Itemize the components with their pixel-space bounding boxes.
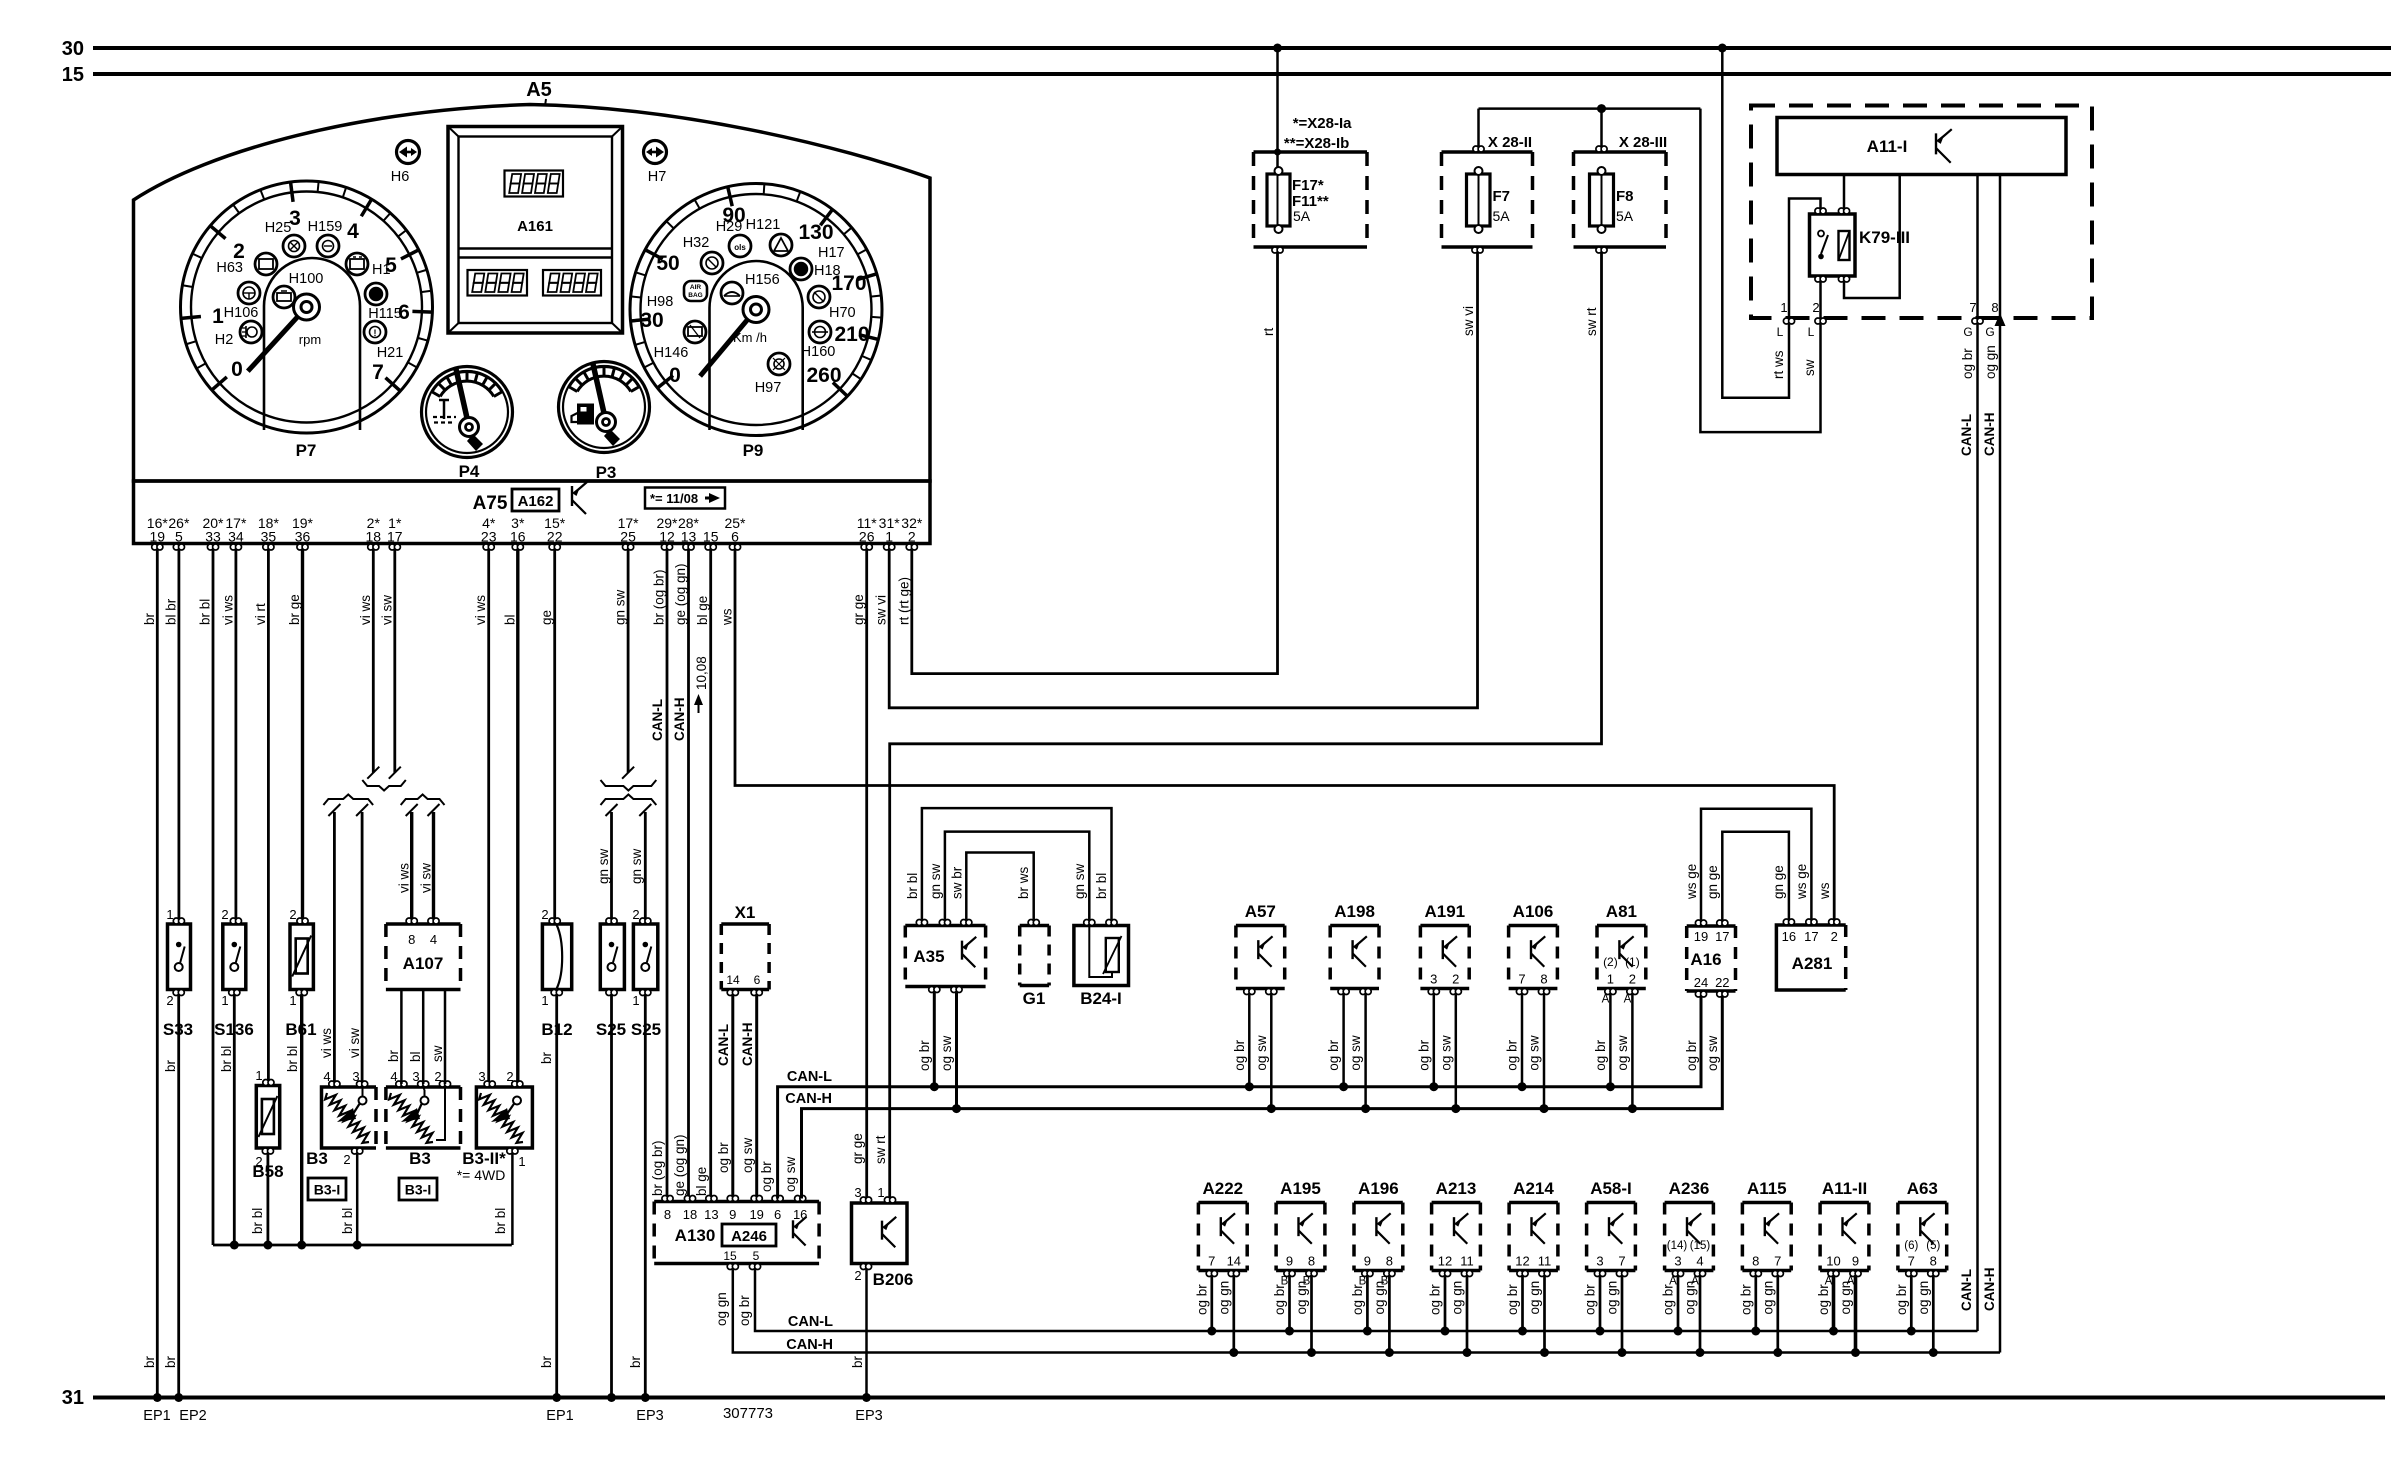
svg-text:gn sw: gn sw xyxy=(613,589,628,625)
wire A11-II og br to CAN-L xyxy=(1832,1277,1836,1332)
svg-text:*= 4WD: *= 4WD xyxy=(457,1167,506,1183)
svg-text:og br: og br xyxy=(1738,1284,1753,1315)
svg-text:og br: og br xyxy=(1960,348,1975,379)
svg-text:br: br xyxy=(850,1355,865,1368)
wire A106 og br to CAN-L xyxy=(1521,995,1524,1087)
svg-text:5A: 5A xyxy=(1616,208,1634,224)
wire gn sw to S25 left xyxy=(610,812,613,921)
wire K79 coil bottom loop to A11-I xyxy=(1844,175,1900,299)
svg-text:H25: H25 xyxy=(265,220,292,236)
wire A81 og sw to CAN-H xyxy=(1631,995,1634,1109)
svg-text:og br: og br xyxy=(737,1295,752,1326)
svg-text:B3: B3 xyxy=(306,1149,328,1168)
telltale H2 xyxy=(240,321,262,343)
telltale H1 xyxy=(346,253,368,275)
control unit A222 xyxy=(1198,1201,1247,1205)
svg-text:L: L xyxy=(1777,325,1784,339)
svg-text:9: 9 xyxy=(1286,1254,1293,1269)
svg-text:og sw: og sw xyxy=(740,1137,755,1173)
control unit A191 xyxy=(1420,924,1469,928)
sensor B58 xyxy=(256,1086,279,1149)
svg-text:og br: og br xyxy=(1350,1284,1365,1315)
svg-text:A214: A214 xyxy=(1513,1179,1554,1198)
A11-I inner module xyxy=(1777,118,2066,175)
svg-text:H7: H7 xyxy=(648,169,667,185)
telltale H106 xyxy=(238,282,260,304)
telltale H115 xyxy=(365,283,387,305)
junction on bus 30 feeding relay supply xyxy=(1718,44,1727,53)
svg-text:10: 10 xyxy=(1826,1254,1840,1269)
wire B12 to bus31 EP1 xyxy=(555,993,558,1398)
svg-text:og gn: og gn xyxy=(1983,345,1998,379)
svg-text:rt (rt ge): rt (rt ge) xyxy=(896,577,911,625)
svg-text:A107: A107 xyxy=(403,954,444,973)
control unit A106 xyxy=(1509,924,1558,928)
photocell B206 xyxy=(852,1203,908,1264)
wire pin17 vi sw to cable break xyxy=(393,550,396,773)
fuse F17/F11 5A xyxy=(1267,174,1290,226)
wire pin36 br ge to B61 xyxy=(301,550,304,921)
svg-text:5: 5 xyxy=(753,1249,760,1263)
wire A222 og gn to CAN-H xyxy=(1232,1277,1235,1353)
svg-text:A162: A162 xyxy=(518,493,554,510)
wire A214 og gn to CAN-H xyxy=(1543,1277,1546,1353)
svg-text:A196: A196 xyxy=(1358,1179,1399,1198)
svg-text:7: 7 xyxy=(1908,1254,1915,1269)
control unit A11-II xyxy=(1820,1201,1869,1205)
svg-text:1: 1 xyxy=(1607,972,1614,987)
gearbox sender B3-II xyxy=(476,1087,532,1148)
svg-text:br: br xyxy=(628,1355,643,1368)
wires A11-I pins 7 8 internal xyxy=(1976,175,1979,319)
svg-text:!: ! xyxy=(374,328,377,338)
svg-text:11: 11 xyxy=(1538,1254,1552,1269)
svg-text:19: 19 xyxy=(749,1207,763,1222)
telltale H97 xyxy=(768,353,790,375)
svg-text:1: 1 xyxy=(518,1154,525,1169)
svg-text:H6: H6 xyxy=(391,169,410,185)
svg-text:G: G xyxy=(1963,325,1972,339)
svg-text:sw: sw xyxy=(430,1045,445,1062)
svg-text:7: 7 xyxy=(1518,972,1525,987)
svg-text:og sw: og sw xyxy=(1705,1035,1720,1071)
combination control unit A130 xyxy=(654,1200,819,1204)
svg-text:19: 19 xyxy=(1694,929,1708,944)
wire og gn CAN-H from pin8 xyxy=(1999,324,2002,1353)
svg-text:14: 14 xyxy=(1227,1254,1241,1269)
svg-text:8: 8 xyxy=(408,932,415,947)
wire A11-I to K79 coil top xyxy=(1843,175,1846,209)
wire gn sw to S25 right xyxy=(644,812,647,921)
svg-text:ws: ws xyxy=(1817,882,1832,900)
wire A11-II og gn to CAN-H xyxy=(1854,1277,1858,1353)
svg-text:H63: H63 xyxy=(216,260,243,276)
speedometer P9 xyxy=(630,184,882,436)
svg-text:A281: A281 xyxy=(1792,954,1833,973)
svg-text:1: 1 xyxy=(212,305,224,328)
svg-text:18: 18 xyxy=(683,1207,697,1222)
svg-text:sw rt: sw rt xyxy=(873,1135,888,1164)
svg-text:ws ge: ws ge xyxy=(1684,864,1699,900)
wire A58-I og br to CAN-L xyxy=(1599,1277,1602,1332)
bus 31 xyxy=(93,1396,2385,1400)
svg-text:H17: H17 xyxy=(818,245,845,261)
svg-text:ge: ge xyxy=(539,610,554,625)
wire A63 og br to CAN-L xyxy=(1910,1277,1913,1332)
brake fluid switch B12 xyxy=(542,924,571,990)
svg-text:BAG: BAG xyxy=(688,292,702,299)
svg-text:br: br xyxy=(142,612,157,625)
svg-text:15: 15 xyxy=(62,64,84,86)
svg-text:EP1: EP1 xyxy=(546,1408,573,1424)
svg-text:8: 8 xyxy=(1308,1254,1315,1269)
svg-text:br ge: br ge xyxy=(287,594,302,625)
svg-text:CAN-H: CAN-H xyxy=(1982,1268,1997,1312)
svg-text:bl br: bl br xyxy=(163,598,178,625)
svg-text:H160: H160 xyxy=(801,344,836,360)
svg-text:8: 8 xyxy=(1930,1254,1937,1269)
wire S25 left to bus31 xyxy=(610,993,613,1398)
svg-text:1: 1 xyxy=(289,993,296,1008)
svg-text:gr ge: gr ge xyxy=(850,1133,865,1164)
svg-text:3: 3 xyxy=(854,1185,861,1200)
svg-text:A81: A81 xyxy=(1606,902,1637,921)
wire S33 to bus31 EP2 xyxy=(177,993,180,1398)
svg-text:H2: H2 xyxy=(215,332,234,348)
control unit A81 xyxy=(1597,924,1646,928)
svg-text:2: 2 xyxy=(166,993,173,1008)
svg-text:7: 7 xyxy=(1969,300,1976,315)
telltale H98 airbag xyxy=(684,281,707,301)
svg-text:og br: og br xyxy=(917,1040,932,1071)
wire pin1 sw vi to fuse F7 xyxy=(889,250,1477,708)
svg-text:AIR: AIR xyxy=(690,284,702,291)
svg-text:S25: S25 xyxy=(631,1020,661,1039)
coolant temperature gauge P4 xyxy=(422,367,513,458)
wire pin23 vi ws to B3-II pin3 xyxy=(487,550,490,1084)
svg-text:7: 7 xyxy=(1774,1254,1781,1269)
svg-text:1: 1 xyxy=(541,993,548,1008)
svg-text:H70: H70 xyxy=(829,305,856,321)
svg-text:B58: B58 xyxy=(252,1162,283,1181)
switch S33 xyxy=(168,924,191,990)
svg-text:16: 16 xyxy=(510,529,526,545)
svg-text:A236: A236 xyxy=(1669,1179,1710,1198)
cable brace lower to A107 xyxy=(401,795,445,806)
wire pin2 rt to fuse F17 xyxy=(912,250,1278,674)
telltale H21 xyxy=(364,321,386,343)
svg-text:1: 1 xyxy=(166,907,173,922)
svg-text:H29: H29 xyxy=(716,219,743,235)
svg-text:vi ws: vi ws xyxy=(358,595,373,625)
wire A115 og br to CAN-L xyxy=(1754,1277,1757,1332)
svg-text:gr ge: gr ge xyxy=(851,594,866,625)
svg-text:A11-II: A11-II xyxy=(1822,1179,1867,1198)
svg-text:H18: H18 xyxy=(814,263,841,279)
svg-text:A58-I: A58-I xyxy=(1590,1179,1632,1198)
wire A16 pin19 ws ge to A281 pin17 xyxy=(1701,809,1811,920)
svg-text:A195: A195 xyxy=(1280,1179,1321,1198)
svg-text:A: A xyxy=(1624,994,1632,1006)
wire pin34 vi ws to S136 xyxy=(234,550,237,921)
coolant level sender B3 (second) xyxy=(386,1085,461,1089)
svg-text:H146: H146 xyxy=(654,345,689,361)
svg-text:8: 8 xyxy=(1540,972,1547,987)
svg-text:og br: og br xyxy=(716,1142,731,1173)
svg-text:1: 1 xyxy=(255,1068,262,1083)
svg-text:vi rt: vi rt xyxy=(253,603,268,625)
svg-text:S25: S25 xyxy=(596,1020,626,1039)
svg-text:EP1: EP1 xyxy=(143,1408,170,1424)
svg-text:og gn: og gn xyxy=(1605,1281,1620,1315)
telltale H121 xyxy=(770,234,792,256)
svg-text:12: 12 xyxy=(659,529,675,545)
svg-text:307773: 307773 xyxy=(723,1405,773,1422)
svg-text:7: 7 xyxy=(1208,1254,1215,1269)
svg-text:og br: og br xyxy=(1194,1284,1209,1315)
svg-text:23: 23 xyxy=(481,529,497,545)
svg-text:rpm: rpm xyxy=(299,332,321,347)
svg-text:gn sw: gn sw xyxy=(1072,863,1087,899)
svg-text:31: 31 xyxy=(62,1387,84,1409)
svg-text:og sw: og sw xyxy=(1254,1035,1269,1071)
svg-text:og br: og br xyxy=(1816,1284,1831,1315)
svg-text:(14): (14) xyxy=(1667,1240,1688,1252)
svg-text:G: G xyxy=(1985,325,1994,339)
A107 output wires br bl sw xyxy=(400,990,403,1085)
svg-text:og sw: og sw xyxy=(1438,1035,1453,1071)
svg-text:og gn: og gn xyxy=(1450,1281,1465,1315)
svg-text:A75: A75 xyxy=(473,493,508,514)
svg-text:CAN-H: CAN-H xyxy=(740,1023,755,1067)
svg-text:19: 19 xyxy=(150,529,166,545)
svg-text:CAN-L: CAN-L xyxy=(716,1024,731,1066)
wire og br CAN-L from pin7 xyxy=(1976,324,1979,1331)
svg-text:sw vi: sw vi xyxy=(1461,306,1476,336)
svg-text:*= 11/08: *= 11/08 xyxy=(650,491,698,506)
svg-text:CAN-L: CAN-L xyxy=(650,699,665,741)
svg-text:13: 13 xyxy=(681,529,697,545)
svg-text:gn ge: gn ge xyxy=(1771,865,1786,899)
svg-text:br ws: br ws xyxy=(1016,866,1031,899)
svg-text:7: 7 xyxy=(1618,1254,1625,1269)
svg-text:**=X28-Ib: **=X28-Ib xyxy=(1284,135,1349,152)
svg-text:og br: og br xyxy=(1684,1040,1699,1071)
svg-text:og br: og br xyxy=(1232,1039,1247,1070)
svg-text:1: 1 xyxy=(877,1185,884,1200)
wire A58-I og gn to CAN-H xyxy=(1621,1277,1624,1353)
wire pin22 ge to B12 xyxy=(553,550,556,921)
svg-text:H1: H1 xyxy=(372,262,391,278)
svg-text:gn sw: gn sw xyxy=(928,863,943,899)
svg-text:B3-I: B3-I xyxy=(314,1182,340,1198)
svg-text:1: 1 xyxy=(885,529,893,545)
svg-text:2: 2 xyxy=(541,907,548,922)
CAN-L mid bus xyxy=(778,996,1701,1199)
svg-text:A191: A191 xyxy=(1424,902,1465,921)
fuel level sender B3 xyxy=(322,1087,377,1148)
svg-text:2: 2 xyxy=(289,907,296,922)
svg-text:vi ws: vi ws xyxy=(397,863,412,893)
svg-text:3: 3 xyxy=(1674,1254,1681,1269)
svg-text:br bl: br bl xyxy=(1094,873,1109,899)
svg-text:bl: bl xyxy=(408,1051,423,1062)
svg-text:og br: og br xyxy=(1272,1284,1287,1315)
wire A57 og sw to CAN-H xyxy=(1270,995,1273,1109)
svg-text:B12: B12 xyxy=(541,1020,572,1039)
svg-text:B: B xyxy=(1381,1276,1389,1288)
wire A191 og sw to CAN-H xyxy=(1455,995,1458,1109)
svg-text:A11-I: A11-I xyxy=(1867,137,1908,156)
validity box *= 11/08 xyxy=(645,488,725,509)
relay K79-III xyxy=(1810,214,1856,276)
svg-text:4: 4 xyxy=(430,932,437,947)
wire pin35 vi rt to B58 xyxy=(267,550,270,1082)
control unit A107 xyxy=(386,922,461,926)
wire A236 og gn to CAN-H xyxy=(1699,1277,1702,1353)
switch S25 (left) xyxy=(600,924,624,990)
wire A195 og br to CAN-L xyxy=(1288,1277,1291,1332)
svg-text:og sw: og sw xyxy=(783,1156,798,1192)
svg-text:4: 4 xyxy=(1696,1254,1703,1269)
svg-text:A161: A161 xyxy=(517,218,553,235)
wire S136 to ground bus xyxy=(233,993,236,1246)
svg-text:X1: X1 xyxy=(735,903,756,922)
svg-text:H115: H115 xyxy=(368,306,402,322)
svg-text:P4: P4 xyxy=(459,462,480,481)
svg-text:B: B xyxy=(1281,1276,1289,1288)
wire A35 gn sw loop to B24-I pin gn sw xyxy=(945,832,1089,920)
svg-text:26: 26 xyxy=(859,529,875,545)
svg-text:B3-I: B3-I xyxy=(405,1182,431,1198)
wire K79 pin1 to connector pin1 xyxy=(1789,199,1821,319)
svg-text:*=X28-Ia: *=X28-Ia xyxy=(1293,115,1352,132)
svg-text:P7: P7 xyxy=(296,441,317,460)
CAN-L bottom bus xyxy=(755,1270,1978,1332)
svg-text:br bl: br bl xyxy=(285,1046,300,1072)
telltale H70 xyxy=(808,286,830,308)
CAN-H mid bus xyxy=(802,996,1723,1199)
svg-text:6: 6 xyxy=(731,529,739,545)
telltale H160 xyxy=(809,321,831,343)
wire A35 sw br to G1 br ws xyxy=(966,853,1033,920)
svg-text:(6): (6) xyxy=(1904,1240,1918,1252)
cable brace S25 pair xyxy=(601,780,657,791)
svg-text:2: 2 xyxy=(343,1152,350,1167)
svg-text:rt: rt xyxy=(1261,328,1276,336)
wire A198 og br to CAN-L xyxy=(1342,995,1345,1087)
wire pin12 CAN-L to A130 pin8 xyxy=(666,550,669,1199)
svg-text:og br: og br xyxy=(1894,1284,1909,1315)
svg-text:6: 6 xyxy=(754,973,761,987)
control unit A115 xyxy=(1742,1201,1791,1205)
svg-text:5: 5 xyxy=(175,529,183,545)
sensor B61 xyxy=(290,924,313,990)
wire A195 og gn to CAN-H xyxy=(1310,1277,1313,1353)
svg-text:17: 17 xyxy=(387,529,403,545)
svg-text:35: 35 xyxy=(261,529,277,545)
svg-text:S136: S136 xyxy=(214,1020,254,1039)
svg-text:ws ge: ws ge xyxy=(1794,864,1809,900)
svg-text:11: 11 xyxy=(1460,1254,1474,1269)
svg-text:H156: H156 xyxy=(745,272,780,288)
svg-text:14: 14 xyxy=(726,973,740,987)
control unit A195 xyxy=(1276,1201,1325,1205)
svg-text:24: 24 xyxy=(1694,975,1708,990)
svg-text:CAN-L: CAN-L xyxy=(787,1069,832,1085)
svg-text:br: br xyxy=(163,1355,178,1368)
wire A213 og gn to CAN-H xyxy=(1466,1277,1469,1353)
wire rt ws from bus30 to pin1 xyxy=(1722,48,1789,398)
svg-text:og br: og br xyxy=(1505,1284,1520,1315)
svg-text:br: br xyxy=(163,1059,178,1072)
fuel gauge P3 xyxy=(559,362,650,453)
svg-text:og gn: og gn xyxy=(1916,1281,1931,1315)
wire A35 og br to CAN-L xyxy=(933,993,936,1087)
svg-text:K79-III: K79-III xyxy=(1859,228,1910,247)
svg-text:sw br: sw br xyxy=(950,866,965,899)
wire pin26 gr ge to B206 pin3 xyxy=(865,550,868,1200)
svg-text:(5): (5) xyxy=(1926,1240,1940,1252)
svg-text:5A: 5A xyxy=(1293,208,1311,224)
svg-text:br: br xyxy=(386,1049,401,1062)
svg-text:P3: P3 xyxy=(596,463,617,482)
svg-text:A213: A213 xyxy=(1436,1179,1477,1198)
control unit A16 xyxy=(1687,924,1736,928)
svg-text:ws: ws xyxy=(720,608,735,626)
svg-text:bl ge: bl ge xyxy=(695,596,710,625)
wire A63 og gn to CAN-H xyxy=(1932,1277,1935,1353)
svg-text:A: A xyxy=(1825,1276,1833,1288)
wire vi sw to B3 pin3 xyxy=(361,812,364,1084)
svg-text:16: 16 xyxy=(793,1207,807,1222)
svg-text:2: 2 xyxy=(1812,300,1819,315)
wire pin15 bl ge to A130 pin13 xyxy=(709,550,712,1199)
svg-text:2: 2 xyxy=(221,907,228,922)
svg-text:H97: H97 xyxy=(755,380,782,396)
wire pin25 gn sw to cable break xyxy=(627,550,630,773)
wire A222 og br to CAN-L xyxy=(1210,1277,1213,1332)
wire vi sw to A107 pin4 xyxy=(432,812,435,921)
control unit A57 xyxy=(1236,924,1285,928)
7-segment display bottom-right xyxy=(543,270,601,296)
svg-text:A: A xyxy=(1602,994,1610,1006)
svg-text:br (og br): br (og br) xyxy=(650,1140,665,1196)
wire A16 pin17 gn ge to A281 pin16 xyxy=(1722,832,1789,920)
svg-text:S33: S33 xyxy=(163,1020,193,1039)
svg-text:F7: F7 xyxy=(1493,188,1511,205)
svg-text:og gn: og gn xyxy=(1527,1281,1542,1315)
wire A213 og br to CAN-L xyxy=(1444,1277,1447,1332)
svg-text:og gn: og gn xyxy=(714,1292,729,1326)
cable brace lower to B3 xyxy=(323,795,373,806)
wire A236 og br to CAN-L xyxy=(1677,1277,1680,1332)
svg-text:8: 8 xyxy=(664,1207,671,1222)
svg-text:X 28-III: X 28-III xyxy=(1619,134,1667,151)
svg-text:1: 1 xyxy=(221,993,228,1008)
svg-text:30: 30 xyxy=(62,38,84,60)
svg-text:F17*: F17* xyxy=(1292,177,1324,194)
svg-text:A115: A115 xyxy=(1747,1179,1787,1198)
fuse F7 5A xyxy=(1467,174,1491,226)
svg-text:vi sw: vi sw xyxy=(419,863,434,893)
svg-text:2: 2 xyxy=(908,529,916,545)
fuse holder X28-II xyxy=(1442,150,1533,154)
control unit A196 xyxy=(1354,1201,1403,1205)
svg-text:A5: A5 xyxy=(526,79,552,101)
switch S25 (right) xyxy=(633,924,657,990)
svg-text:6: 6 xyxy=(774,1207,781,1222)
